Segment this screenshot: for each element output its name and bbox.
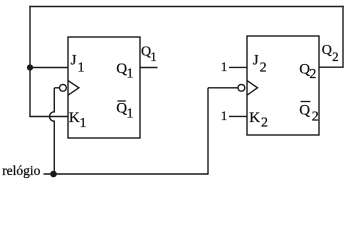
wire: K2 constant-1 input <box>229 115 247 117</box>
U2 clock edge triangle <box>247 81 258 96</box>
U2 clock inversion bubble <box>238 84 245 91</box>
svg-text:2: 2 <box>309 67 316 82</box>
svg-text:2: 2 <box>312 110 319 125</box>
svg-text:1: 1 <box>221 108 228 123</box>
svg-text:1: 1 <box>127 107 134 122</box>
wire: top feedback from Q2 to left vertical <box>29 6 343 8</box>
wire: J1 input <box>30 67 68 69</box>
wire: Q1 output stub <box>140 67 158 69</box>
svg-text:1: 1 <box>221 59 228 74</box>
svg-text:relógio: relógio <box>2 163 40 178</box>
wire: U1 clock horizontal into bubble <box>54 87 59 89</box>
wire: U1 clock vertical from relogio line with hop over K1 wire <box>50 88 55 174</box>
flip-flop U2 box <box>247 36 319 135</box>
wire: U2 clock horizontal into bubble <box>208 87 238 89</box>
svg-text:2: 2 <box>260 60 267 75</box>
node: junction dot at J1 branch <box>27 64 33 70</box>
U1 clock inversion bubble <box>60 84 67 91</box>
svg-text:Q: Q <box>299 103 310 119</box>
label Q-bar-2 inside <box>301 101 311 103</box>
label Q-bar-1 inside <box>117 100 125 102</box>
wire: J2 constant-1 input <box>229 66 247 68</box>
svg-text:1: 1 <box>127 67 134 82</box>
wire: U2 clock vertical from relogio line <box>207 88 209 175</box>
svg-text:J: J <box>253 53 259 69</box>
svg-text:1: 1 <box>78 60 85 75</box>
svg-text:K: K <box>69 110 80 126</box>
wire: left vertical feedback bus <box>29 6 31 117</box>
svg-text:2: 2 <box>332 49 339 64</box>
svg-text:2: 2 <box>261 116 268 131</box>
node: junction dot on relogio line <box>50 171 57 178</box>
svg-text:Q: Q <box>322 43 332 58</box>
wire: Q2 output <box>319 66 343 68</box>
wire: relogio clock line <box>44 173 209 175</box>
flip-flop U1 box <box>68 37 140 138</box>
wire: K1 input <box>30 116 68 118</box>
svg-text:1: 1 <box>80 116 87 131</box>
svg-text:1: 1 <box>150 49 157 64</box>
svg-text:K: K <box>249 110 260 126</box>
wire: right vertical from Q2 up to top feedback <box>342 6 344 68</box>
svg-text:J: J <box>71 53 77 69</box>
U1 clock edge triangle <box>68 81 79 96</box>
